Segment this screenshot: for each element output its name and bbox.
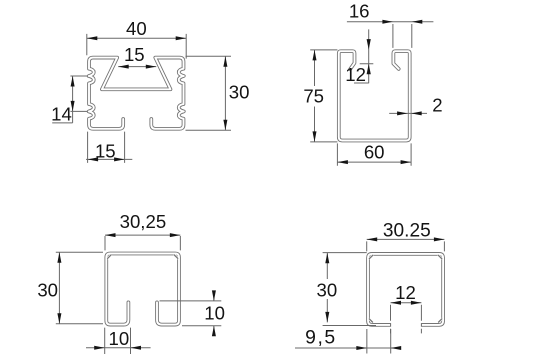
dimension 15 TL slot bbox=[118, 44, 156, 69]
profile TR C-channel outline bbox=[339, 51, 410, 140]
svg-text:12: 12 bbox=[345, 64, 366, 85]
svg-text:15: 15 bbox=[95, 140, 116, 161]
dimension 30 BR left bbox=[317, 253, 376, 326]
svg-text:30: 30 bbox=[37, 280, 58, 301]
svg-text:9,5: 9,5 bbox=[305, 326, 336, 348]
dimension 12 TR lip bbox=[345, 29, 373, 85]
dimension 2 TR wall bbox=[389, 94, 442, 115]
dimension 40 TL top bbox=[87, 18, 186, 58]
svg-text:30,25: 30,25 bbox=[120, 211, 167, 232]
dimension 30,25 BL top bbox=[105, 211, 180, 250]
svg-text:14: 14 bbox=[51, 104, 72, 125]
dimension 15 TL bottom bbox=[86, 132, 132, 163]
dimension 10 BL right lip bbox=[160, 290, 225, 336]
svg-text:15: 15 bbox=[124, 44, 145, 65]
dimension 30 BL left bbox=[37, 252, 103, 324]
profile BL hat channel outline bbox=[106, 254, 179, 325]
dimension 9,5 BR bottom bbox=[295, 326, 401, 353]
profile TL solar mounting rail outline bbox=[89, 58, 184, 129]
profile BR flange stub end cap left bbox=[390, 323, 392, 326]
svg-text:30: 30 bbox=[317, 279, 338, 300]
profile BL inner corner chamfer right bbox=[174, 255, 178, 259]
dimension 12 BR slot bbox=[391, 282, 422, 333]
svg-text:2: 2 bbox=[432, 94, 442, 115]
profile BR inner chamfer top-left bbox=[369, 255, 373, 259]
svg-text:40: 40 bbox=[126, 18, 147, 39]
svg-text:75: 75 bbox=[303, 85, 324, 106]
svg-text:30: 30 bbox=[229, 82, 250, 103]
profile BR inner chamfer bottom-right bbox=[438, 319, 442, 323]
dimension 60 TR bottom bbox=[337, 142, 411, 166]
svg-text:16: 16 bbox=[349, 1, 370, 22]
dimension 30 TL right bbox=[186, 56, 250, 130]
svg-text:10: 10 bbox=[109, 328, 130, 349]
dimension 16 TR top bbox=[347, 1, 434, 48]
svg-text:12: 12 bbox=[395, 282, 416, 303]
profile BR inner chamfer bottom-left bbox=[369, 319, 373, 323]
profile BL inner corner chamfer left bbox=[107, 255, 111, 259]
dimension 10 BL bottom bbox=[86, 328, 151, 354]
svg-text:10: 10 bbox=[204, 302, 225, 323]
dimension 30.25 BR top bbox=[367, 220, 445, 251]
dimension 14 TL left bbox=[51, 76, 87, 125]
dimension 75 TR left bbox=[303, 50, 337, 142]
profile BR flange stub end cap right bbox=[420, 323, 422, 326]
svg-text:30.25: 30.25 bbox=[383, 220, 431, 241]
svg-text:60: 60 bbox=[364, 142, 385, 163]
profile BR hat channel outline bbox=[368, 254, 443, 325]
profile BR inner chamfer top-right bbox=[438, 255, 442, 259]
